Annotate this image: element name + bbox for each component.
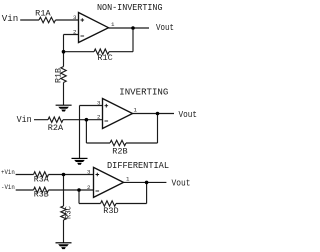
svg-text:Vout: Vout: [179, 109, 198, 120]
svg-text:Vin: Vin: [17, 114, 32, 125]
svg-text:2: 2: [73, 29, 77, 36]
svg-text:1: 1: [126, 176, 130, 183]
svg-text:R2B: R2B: [112, 149, 128, 157]
svg-text:R3D: R3D: [103, 208, 119, 216]
svg-text:DIFFERENTIAL: DIFFERENTIAL: [107, 160, 169, 171]
svg-text:R3A: R3A: [34, 176, 49, 184]
svg-text:R1C: R1C: [97, 55, 113, 63]
svg-text:R1A: R1A: [35, 11, 51, 19]
svg-text:R2A: R2A: [48, 125, 64, 133]
svg-text:-Vin: -Vin: [1, 184, 15, 191]
svg-text:2: 2: [97, 114, 101, 121]
svg-text:3: 3: [87, 169, 91, 176]
svg-text:R3C: R3C: [66, 206, 74, 219]
svg-text:1: 1: [111, 21, 115, 28]
svg-text:1: 1: [134, 107, 138, 114]
svg-text:INVERTING: INVERTING: [119, 87, 168, 98]
svg-text:Vout: Vout: [156, 22, 174, 33]
svg-text:Vout: Vout: [172, 177, 191, 188]
svg-text:NON-INVERTING: NON-INVERTING: [97, 2, 163, 13]
svg-text:Vin: Vin: [2, 13, 19, 24]
svg-text:R1B: R1B: [55, 68, 63, 83]
svg-text:3: 3: [73, 14, 77, 21]
svg-text:3: 3: [97, 100, 101, 107]
svg-text:R3B: R3B: [34, 191, 49, 199]
svg-text:+Vin: +Vin: [1, 169, 15, 176]
svg-text:2: 2: [87, 184, 91, 191]
